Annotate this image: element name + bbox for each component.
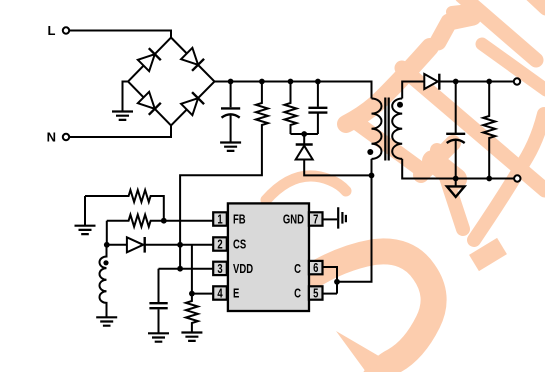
wire primary bottom to C pins	[337, 159, 372, 282]
junction R1 top	[259, 79, 265, 85]
svg-text:CS: CS	[233, 238, 246, 252]
transformer T1 secondary winding	[392, 99, 402, 159]
svg-text:C: C	[294, 263, 301, 277]
wire pin7 to ground	[324, 218, 338, 220]
pin 2 box	[213, 237, 227, 252]
diode D2 output	[424, 74, 439, 90]
svg-text:N: N	[47, 130, 56, 145]
wire R4 left to ground	[84, 196, 86, 226]
ground output triangle	[447, 186, 465, 197]
inductor dot	[103, 260, 108, 265]
pin 6 box	[309, 261, 323, 276]
IC U1 body	[228, 203, 309, 311]
pin 4 box	[213, 286, 227, 301]
resistor R1 startup	[180, 82, 268, 269]
resistor R2 snubber	[285, 82, 297, 135]
wire L to bridge top	[69, 31, 171, 38]
pin 1 box	[213, 212, 227, 227]
wire pin5	[324, 293, 338, 295]
junction C4 bottom	[453, 176, 459, 182]
wire secondary bottom rail	[402, 159, 514, 179]
svg-text:E: E	[233, 287, 239, 301]
junction R3 bottom	[486, 176, 492, 182]
junction C pins	[334, 279, 340, 285]
junction FB divider	[161, 218, 167, 224]
junction primary bottom	[369, 173, 375, 179]
pin 7 box	[309, 212, 323, 227]
wire secondary top to diode D2	[402, 82, 424, 99]
transformer T1 primary winding	[372, 99, 382, 159]
svg-text:C: C	[294, 287, 301, 301]
junction snubber RC bottom	[301, 131, 307, 137]
svg-text:FB: FB	[233, 213, 246, 227]
svg-text:5: 5	[313, 287, 318, 301]
transformer dot primary	[367, 149, 373, 155]
capacitor C2 plates	[149, 303, 167, 308]
watermark	[266, 0, 545, 372]
diode D3 leads	[107, 244, 213, 246]
wire HV rail	[215, 82, 372, 99]
inductor L1 aux winding	[99, 245, 106, 317]
junction R2 top	[288, 79, 294, 85]
wire snubber RC bottom	[291, 133, 318, 135]
resistor R6 sense	[186, 294, 198, 333]
wire R5 left to aux junction	[106, 221, 108, 245]
svg-text:4: 4	[217, 287, 223, 301]
junction C3 top	[315, 79, 321, 85]
resistor R4 horizontal	[85, 190, 164, 221]
svg-text:GND: GND	[283, 213, 304, 227]
resistor R5 horizontal	[107, 215, 151, 227]
junction VDD	[177, 266, 183, 272]
ground aux	[96, 317, 117, 325]
junction R6 top	[189, 291, 195, 297]
terminal N	[63, 134, 69, 140]
wire CS drop	[192, 245, 213, 294]
junction aux top	[104, 242, 110, 248]
ground bridge	[112, 112, 133, 120]
ground C2	[148, 333, 169, 341]
terminal output+	[514, 78, 520, 84]
svg-text:6: 6	[313, 262, 318, 276]
terminal L	[63, 27, 69, 33]
bridge diode BD4 bottom-right	[181, 92, 204, 115]
bridge diode BD2 top-right	[181, 47, 204, 70]
wire N to bridge bottom	[69, 126, 171, 138]
bridge diode BD1 top-left	[137, 48, 160, 71]
wire FB line	[150, 220, 213, 222]
junction C1 top	[228, 79, 234, 85]
capacitor C2 lead bottom	[158, 309, 160, 333]
capacitor C3 plates	[308, 108, 327, 113]
ground pin7 sideways	[338, 207, 346, 228]
svg-text:2: 2	[217, 238, 222, 252]
ground R4 left	[75, 226, 96, 234]
wire snubber to diode D1	[304, 134, 371, 175]
ground C1	[220, 143, 241, 151]
diode D3 aux	[127, 237, 145, 253]
svg-text:1: 1	[217, 213, 222, 227]
wire bridge left vertex to ground	[123, 82, 129, 112]
transformer dot secondary	[397, 102, 403, 108]
svg-text:VDD: VDD	[233, 263, 253, 277]
resistor R3 output	[483, 82, 495, 179]
bridge diamond wires	[128, 38, 215, 126]
wire VDD line	[159, 268, 213, 270]
terminal output-	[514, 175, 520, 181]
transformer T1 core	[385, 98, 388, 161]
wire output rail	[440, 81, 514, 83]
capacitor C4 output leads	[455, 82, 457, 179]
pin 5 box	[309, 286, 323, 301]
capacitor C4 plates	[446, 134, 465, 143]
junction C4 top	[453, 79, 459, 85]
wire pin6	[324, 267, 338, 294]
capacitor C3 snubber leads	[317, 82, 319, 135]
ground R6	[181, 333, 202, 341]
junction D3 cathode	[177, 242, 183, 248]
capacitor C1 leads	[230, 82, 232, 143]
diode D1 snubber	[296, 145, 313, 160]
bridge diode BD3 bottom-left	[137, 91, 160, 114]
junction R3 top	[486, 79, 492, 85]
capacitor C1 plates	[221, 108, 240, 117]
svg-text:3: 3	[217, 263, 222, 277]
pin 3 box	[213, 262, 227, 277]
svg-text:L: L	[48, 23, 56, 38]
svg-text:7: 7	[313, 213, 318, 227]
wire output ground stub	[455, 179, 457, 187]
wire VDD to C2	[158, 269, 160, 303]
